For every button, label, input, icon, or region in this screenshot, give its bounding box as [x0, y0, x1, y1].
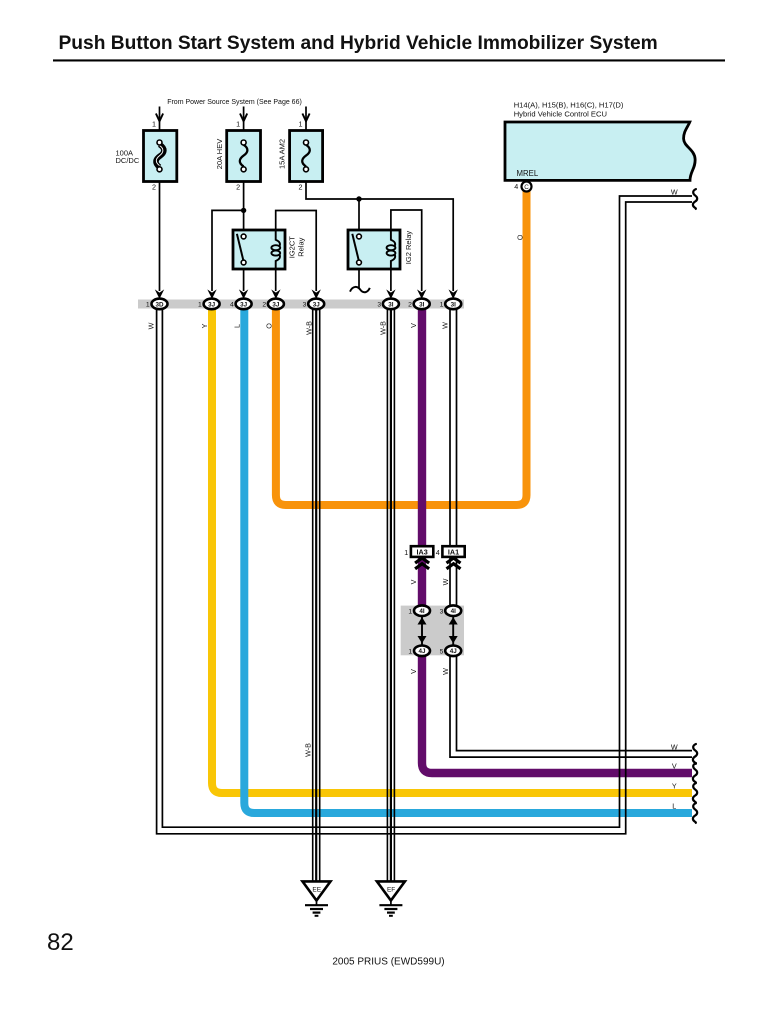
svg-text:W: W — [441, 322, 450, 329]
svg-text:3I: 3I — [451, 301, 457, 308]
wire W: 4J to right break — [450, 650, 692, 757]
break V — [693, 763, 697, 783]
wire relay2 coil top to 2 3I — [391, 210, 422, 291]
svg-text:3: 3 — [440, 608, 444, 615]
svg-text:IG2 Relay: IG2 Relay — [404, 231, 413, 265]
connector 5 4J — [445, 646, 461, 657]
svg-text:Y: Y — [200, 323, 209, 328]
svg-text:3I: 3I — [419, 301, 425, 308]
svg-text:W: W — [441, 668, 450, 675]
wire W: 1 3I to IA1/4I — [450, 308, 457, 607]
wire relay1 coil bottom to 2 3J — [275, 260, 277, 292]
svg-text:1: 1 — [404, 548, 408, 557]
svg-text:H14(A), H15(B), H16(C), H17(D): H14(A), H15(B), H16(C), H17(D) — [514, 100, 624, 109]
svg-text:2: 2 — [408, 302, 412, 309]
svg-text:82: 82 — [47, 929, 74, 956]
connector 4 3J — [239, 289, 248, 299]
connector IA1 — [442, 546, 464, 557]
chevrons under IA1 — [447, 558, 461, 569]
svg-text:1: 1 — [236, 120, 240, 129]
svg-text:DC/DC: DC/DC — [116, 156, 140, 165]
svg-text:EE: EE — [312, 887, 321, 894]
svg-text:4J: 4J — [418, 648, 426, 655]
svg-text:Hybrid Vehicle Control ECU: Hybrid Vehicle Control ECU — [514, 109, 607, 118]
wire fuse1 to 3D — [159, 107, 161, 292]
svg-text:From Power Source System (See: From Power Source System (See Page 66) — [167, 99, 302, 106]
connector 1 4J — [414, 646, 430, 657]
svg-text:1: 1 — [408, 649, 412, 656]
relay U1 box — [233, 230, 285, 269]
wire relay2 switch bottom stub — [358, 265, 360, 288]
arrow into fuse3 — [302, 114, 309, 122]
svg-text:V: V — [409, 323, 418, 328]
wire relay1 coil top to 3 3J — [276, 211, 317, 292]
svg-text:V: V — [672, 762, 677, 771]
svg-text:IA3: IA3 — [417, 548, 428, 557]
relay2 switch — [352, 234, 358, 260]
svg-text:2: 2 — [262, 302, 266, 309]
svg-text:W-B: W-B — [303, 743, 312, 757]
svg-text:V: V — [409, 579, 418, 584]
svg-text:3D: 3D — [155, 301, 164, 308]
svg-text:MREL: MREL — [517, 169, 539, 178]
svg-text:4: 4 — [230, 302, 234, 309]
svg-text:EF: EF — [387, 887, 395, 894]
break L — [693, 803, 697, 823]
svg-text:1: 1 — [299, 120, 303, 129]
wire O orange: 2 3J to MREL — [276, 191, 527, 505]
svg-text:1: 1 — [146, 302, 150, 309]
fuse F2 element — [240, 145, 248, 167]
wire relay1 switch bottom to 4 3J — [243, 265, 245, 291]
ground EE — [303, 881, 331, 900]
fuse F1 100A DC/DC box — [144, 131, 177, 182]
wire Y yellow: 1 3J to right break — [212, 308, 692, 793]
wire L blue: 4 3J to right break — [244, 308, 692, 813]
svg-text:W-B: W-B — [305, 321, 314, 335]
svg-text:3J: 3J — [272, 301, 280, 308]
svg-text:1: 1 — [440, 302, 444, 309]
svg-text:Relay: Relay — [297, 237, 306, 256]
svg-text:C: C — [524, 184, 529, 191]
gray bus bar — [138, 300, 464, 309]
svg-text:W: W — [147, 322, 156, 329]
connector 3 3I — [386, 289, 395, 299]
svg-text:L: L — [233, 324, 242, 328]
connector 1 3D — [155, 289, 164, 299]
svg-text:4I: 4I — [419, 608, 425, 615]
svg-text:3: 3 — [377, 302, 381, 309]
svg-text:IA1: IA1 — [448, 548, 459, 557]
svg-text:O: O — [516, 234, 525, 240]
fuse F1 element — [156, 145, 164, 168]
break Y — [693, 783, 697, 803]
connector 1 4I — [414, 605, 430, 616]
break W — [693, 744, 697, 764]
svg-text:4I: 4I — [451, 608, 457, 615]
svg-text:2: 2 — [299, 183, 303, 192]
title underline — [53, 59, 725, 61]
fuse F2 20A HEV box — [227, 131, 261, 182]
svg-text:1: 1 — [408, 608, 412, 615]
svg-text:1: 1 — [152, 120, 156, 129]
stem left — [421, 616, 423, 645]
svg-text:5: 5 — [440, 649, 444, 656]
svg-text:Y: Y — [672, 782, 677, 791]
connector 2 3I — [417, 289, 426, 299]
relay U2 box — [348, 230, 400, 269]
svg-text:3J: 3J — [313, 301, 321, 308]
svg-text:3J: 3J — [208, 301, 216, 308]
svg-text:Push Button Start System and H: Push Button Start System and Hybrid Vehi… — [59, 33, 658, 54]
connector 3 3J — [312, 289, 321, 299]
fuse F3 element — [302, 145, 310, 167]
arrow into fuse1 — [156, 114, 163, 122]
svg-text:2: 2 — [152, 183, 156, 192]
arrow into fuse2 — [240, 114, 247, 122]
connector 1 3J — [207, 289, 216, 299]
squiggle under relay2 — [350, 287, 370, 292]
fuse F3 15A AM2 box — [290, 131, 323, 182]
junction dot relay2 — [356, 196, 361, 201]
connector 3 4I — [445, 605, 461, 616]
junction dot relay1 — [241, 208, 246, 213]
wire V violet lower: 4J to right break — [422, 650, 692, 773]
arrows right column — [449, 617, 458, 624]
wire W-B: 3 3I to ground EF — [387, 308, 394, 881]
wire W big loop: 3D down, across bottom, up right side, to break near ECU — [157, 202, 692, 834]
svg-text:20A HEV: 20A HEV — [215, 139, 224, 169]
svg-text:3I: 3I — [388, 301, 394, 308]
connector 1 3I — [449, 289, 458, 299]
chevrons under IA3 — [415, 558, 429, 569]
svg-text:W: W — [441, 578, 450, 585]
hybrid vehicle control ECU box — [505, 122, 695, 180]
svg-text:W: W — [671, 743, 678, 752]
relay1 switch — [237, 234, 243, 260]
wire W-B: 3 3J to ground EE — [313, 308, 320, 881]
wire fuse3 to 1 3I — [306, 107, 453, 292]
wire relay2 coil bottom to 3 3I — [390, 260, 392, 292]
W break symbol top right — [693, 189, 697, 209]
svg-text:4: 4 — [514, 182, 518, 191]
relay2 coil — [391, 231, 395, 246]
svg-text:IG2CT: IG2CT — [288, 236, 297, 259]
arrows left column — [418, 617, 427, 624]
svg-text:3: 3 — [303, 302, 307, 309]
svg-text:2: 2 — [236, 183, 240, 192]
wire V violet upper: 2 3I to 4I — [418, 308, 426, 611]
connector IA3 — [411, 546, 433, 557]
wire branch to 1 3J — [212, 210, 244, 291]
svg-text:W-B: W-B — [379, 321, 388, 335]
stem right — [452, 616, 454, 645]
wire fuse2 to relay1 switch — [243, 107, 245, 235]
svg-text:2005 PRIUS (EWD599U): 2005 PRIUS (EWD599U) — [332, 957, 444, 968]
gray junction block — [401, 606, 464, 656]
relay1 coil — [276, 231, 280, 246]
svg-text:4: 4 — [436, 548, 440, 557]
svg-text:15A AM2: 15A AM2 — [278, 139, 287, 169]
svg-text:O: O — [265, 323, 274, 329]
svg-text:1: 1 — [198, 302, 202, 309]
svg-text:W: W — [671, 187, 678, 196]
svg-text:3J: 3J — [240, 301, 248, 308]
ground EF — [377, 881, 405, 900]
svg-text:V: V — [409, 669, 418, 674]
svg-text:L: L — [672, 802, 676, 811]
connector 2 3J — [271, 289, 280, 299]
wire relay2 switch top — [358, 199, 360, 234]
svg-text:4J: 4J — [450, 648, 458, 655]
